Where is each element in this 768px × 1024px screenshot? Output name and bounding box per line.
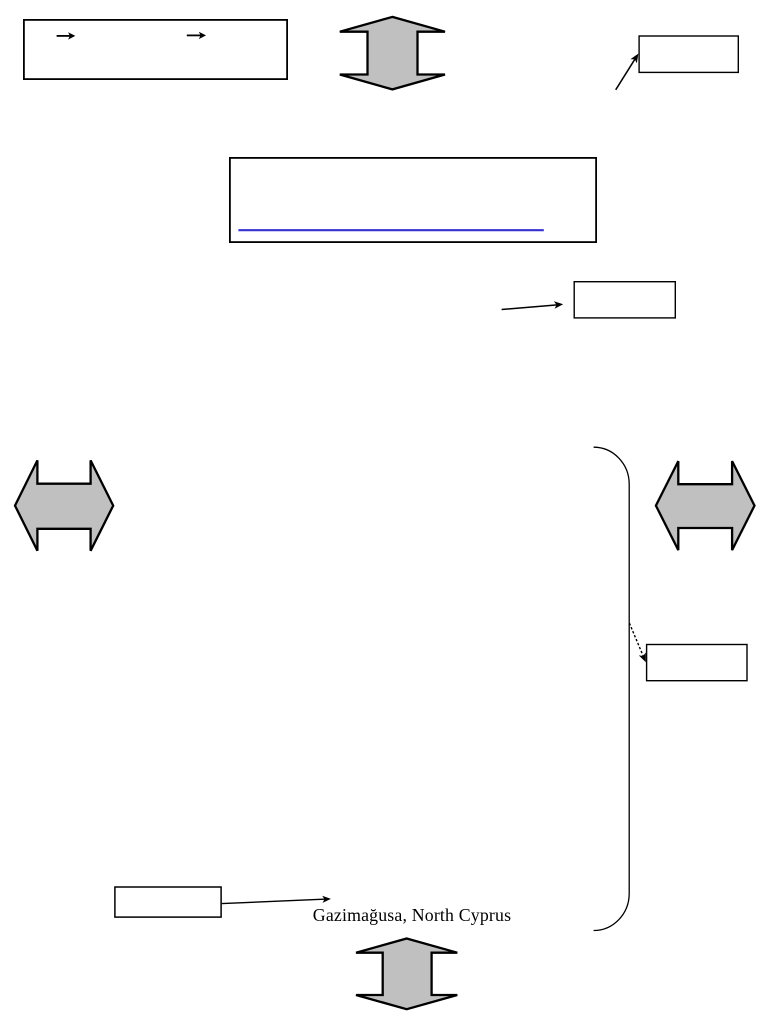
rectangle R6 bottom-left xyxy=(115,887,221,917)
connector arrow from R6 to caption xyxy=(222,896,331,904)
connector arrow into R4 xyxy=(502,301,564,309)
rectangle R1 top-left xyxy=(24,20,287,79)
arc bracket (right side rounded) xyxy=(594,447,630,930)
rectangle R2 top-right xyxy=(639,36,738,72)
rectangle R5 xyxy=(647,645,747,681)
block arrow up-down (bottom) xyxy=(356,939,457,1010)
connector arrow from bracket to R5 xyxy=(629,623,645,662)
blue underline inside R3 xyxy=(238,229,543,231)
small arrow 1 inside R1 xyxy=(57,32,76,39)
block arrow left-right (left) xyxy=(15,460,113,550)
rectangle R4 xyxy=(574,282,675,318)
small arrow 2 inside R1 xyxy=(187,32,206,39)
block arrow left-right (right) xyxy=(656,461,755,550)
rectangle R3 middle with blue rule xyxy=(230,158,596,242)
block arrow up-down (top) xyxy=(340,17,445,90)
connector arrow into R2 xyxy=(616,54,639,90)
svg-text:Gazimağusa, North Cyprus: Gazimağusa, North Cyprus xyxy=(313,905,511,925)
